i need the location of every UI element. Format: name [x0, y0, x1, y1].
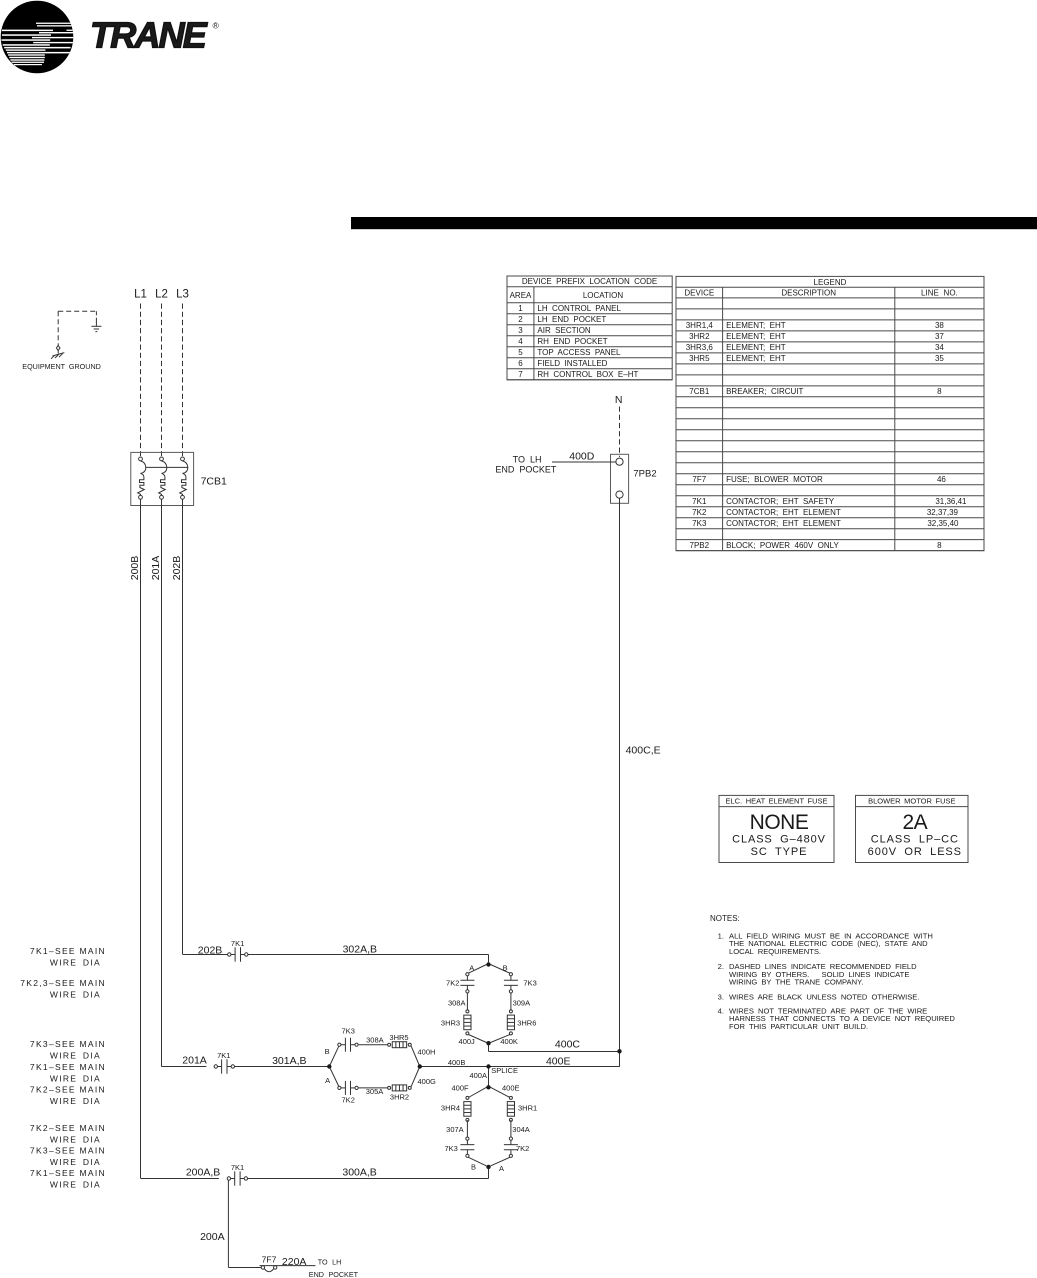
- svg-text:3.: 3.: [718, 992, 724, 1001]
- svg-text:END POCKET: END POCKET: [309, 1270, 359, 1278]
- svg-text:DESCRIPTION: DESCRIPTION: [781, 289, 836, 298]
- svg-text:4.: 4.: [718, 1006, 724, 1015]
- svg-text:2A: 2A: [902, 811, 927, 834]
- svg-text:3HR3: 3HR3: [441, 1018, 460, 1027]
- svg-text:TRANE: TRANE: [90, 15, 208, 56]
- svg-text:2.: 2.: [718, 962, 724, 971]
- svg-text:34: 34: [935, 343, 944, 352]
- svg-text:35: 35: [935, 354, 944, 363]
- svg-text:AIR SECTION: AIR SECTION: [537, 326, 591, 335]
- svg-text:LOCAL REQUIREMENTS.: LOCAL REQUIREMENTS.: [729, 947, 821, 956]
- svg-text:400C,E: 400C,E: [626, 745, 661, 757]
- svg-text:200B: 200B: [129, 556, 141, 581]
- svg-text:LOCATION: LOCATION: [583, 291, 624, 300]
- svg-text:400F: 400F: [451, 1083, 469, 1092]
- svg-text:LH CONTROL PANEL: LH CONTROL PANEL: [537, 304, 621, 313]
- svg-text:CONTACTOR; EHT ELEMENT: CONTACTOR; EHT ELEMENT: [726, 508, 841, 517]
- svg-text:304A: 304A: [512, 1125, 530, 1134]
- svg-text:LINE NO.: LINE NO.: [921, 289, 958, 298]
- svg-text:CONTACTOR; EHT SAFETY: CONTACTOR; EHT SAFETY: [726, 497, 835, 506]
- svg-text:200A,B: 200A,B: [186, 1166, 220, 1178]
- svg-text:7K2: 7K2: [446, 978, 459, 987]
- svg-text:400G: 400G: [418, 1077, 437, 1086]
- svg-text:302A,B: 302A,B: [343, 944, 377, 956]
- svg-text:EQUIPMENT GROUND: EQUIPMENT GROUND: [22, 362, 101, 371]
- svg-text:7CB1: 7CB1: [201, 476, 227, 488]
- svg-text:7F7: 7F7: [262, 1255, 277, 1265]
- svg-text:600V OR LESS: 600V OR LESS: [868, 846, 962, 858]
- svg-text:FOR THIS PARTICULAR UNIT BUILD: FOR THIS PARTICULAR UNIT BUILD.: [729, 1022, 868, 1031]
- svg-text:®: ®: [213, 21, 220, 31]
- svg-text:WIRE DIA: WIRE DIA: [50, 1134, 101, 1144]
- svg-text:CLASS G–480V: CLASS G–480V: [732, 833, 826, 845]
- svg-text:308A: 308A: [366, 1036, 384, 1045]
- svg-text:7K2: 7K2: [342, 1095, 355, 1104]
- svg-text:2: 2: [518, 315, 523, 324]
- svg-text:WIRING BY THE TRANE COMPANY.: WIRING BY THE TRANE COMPANY.: [729, 978, 863, 987]
- svg-text:308A: 308A: [448, 999, 466, 1008]
- svg-text:7K2–SEE MAIN: 7K2–SEE MAIN: [30, 1123, 106, 1133]
- svg-text:400E: 400E: [502, 1083, 520, 1092]
- svg-text:CONTACTOR; EHT ELEMENT: CONTACTOR; EHT ELEMENT: [726, 519, 841, 528]
- svg-text:400B: 400B: [448, 1058, 466, 1067]
- svg-text:6: 6: [518, 359, 523, 368]
- svg-text:32,37,39: 32,37,39: [927, 508, 959, 517]
- svg-text:NONE: NONE: [750, 811, 809, 834]
- svg-text:7K1: 7K1: [231, 1163, 244, 1172]
- svg-text:400H: 400H: [418, 1048, 436, 1057]
- svg-text:32,35,40: 32,35,40: [927, 519, 959, 528]
- svg-text:RH END POCKET: RH END POCKET: [537, 337, 607, 346]
- svg-text:ELC. HEAT ELEMENT FUSE: ELC. HEAT ELEMENT FUSE: [725, 797, 827, 806]
- svg-text:38: 38: [935, 321, 944, 330]
- svg-text:WIRE DIA: WIRE DIA: [50, 957, 101, 967]
- svg-text:400E: 400E: [546, 1055, 571, 1067]
- svg-text:7PB2: 7PB2: [633, 469, 656, 480]
- svg-text:7K3: 7K3: [444, 1144, 457, 1153]
- svg-text:400K: 400K: [500, 1037, 518, 1046]
- svg-text:TO LH: TO LH: [318, 1257, 342, 1266]
- svg-text:7K1: 7K1: [217, 1051, 230, 1060]
- svg-text:BLOWER MOTOR FUSE: BLOWER MOTOR FUSE: [868, 797, 955, 806]
- svg-text:L2: L2: [155, 288, 168, 300]
- svg-text:FUSE; BLOWER MOTOR: FUSE; BLOWER MOTOR: [726, 475, 823, 484]
- svg-text:3HR5: 3HR5: [689, 354, 710, 363]
- svg-text:3HR1: 3HR1: [518, 1104, 537, 1113]
- svg-text:7K3–SEE MAIN: 7K3–SEE MAIN: [30, 1145, 106, 1155]
- svg-text:400A: 400A: [469, 1071, 487, 1080]
- svg-text:7F7: 7F7: [692, 475, 706, 484]
- svg-text:L3: L3: [176, 288, 189, 300]
- svg-text:7K3: 7K3: [692, 519, 707, 528]
- svg-text:400D: 400D: [569, 450, 595, 462]
- svg-text:TOP ACCESS PANEL: TOP ACCESS PANEL: [537, 348, 621, 357]
- svg-text:7: 7: [518, 370, 523, 379]
- svg-text:7K1–SEE MAIN: 7K1–SEE MAIN: [30, 946, 106, 956]
- svg-text:201A: 201A: [182, 1054, 207, 1066]
- svg-text:300A,B: 300A,B: [342, 1166, 376, 1178]
- svg-text:202B: 202B: [171, 556, 183, 581]
- svg-text:7K1: 7K1: [231, 939, 244, 948]
- svg-text:3HR2: 3HR2: [390, 1092, 409, 1101]
- svg-text:B: B: [325, 1047, 330, 1056]
- svg-text:7K2–SEE MAIN: 7K2–SEE MAIN: [30, 1084, 106, 1094]
- svg-text:CLASS LP–CC: CLASS LP–CC: [871, 833, 959, 845]
- svg-text:3HR2: 3HR2: [689, 332, 710, 341]
- svg-text:WIRE DIA: WIRE DIA: [50, 1179, 101, 1189]
- svg-text:200A: 200A: [200, 1231, 225, 1243]
- svg-text:400J: 400J: [459, 1037, 476, 1046]
- svg-text:A: A: [469, 963, 474, 972]
- svg-text:ELEMENT; EHT: ELEMENT; EHT: [726, 343, 786, 352]
- svg-text:37: 37: [935, 332, 944, 341]
- svg-text:3HR3,6: 3HR3,6: [686, 343, 714, 352]
- svg-text:BLOCK; POWER 460V ONLY: BLOCK; POWER 460V ONLY: [726, 541, 839, 550]
- svg-text:END POCKET: END POCKET: [495, 465, 557, 475]
- svg-text:46: 46: [937, 475, 946, 484]
- svg-text:309A: 309A: [513, 999, 531, 1008]
- svg-text:220A: 220A: [282, 1256, 307, 1268]
- svg-text:ELEMENT; EHT: ELEMENT; EHT: [726, 321, 786, 330]
- svg-text:7K1: 7K1: [692, 497, 707, 506]
- svg-text:ELEMENT; EHT: ELEMENT; EHT: [726, 354, 786, 363]
- svg-text:TO LH: TO LH: [513, 454, 542, 464]
- svg-text:A: A: [325, 1076, 330, 1085]
- svg-text:B: B: [471, 1162, 476, 1171]
- svg-text:3HR1,4: 3HR1,4: [686, 321, 714, 330]
- svg-text:7CB1: 7CB1: [689, 387, 710, 396]
- svg-text:7K2,3–SEE MAIN: 7K2,3–SEE MAIN: [20, 978, 106, 988]
- svg-text:8: 8: [937, 387, 942, 396]
- svg-text:WIRES ARE BLACK UNLESS NOTED O: WIRES ARE BLACK UNLESS NOTED OTHERWISE.: [729, 992, 919, 1001]
- svg-text:A: A: [499, 1164, 504, 1173]
- svg-text:3: 3: [518, 326, 523, 335]
- svg-text:WIRE DIA: WIRE DIA: [50, 1073, 101, 1083]
- svg-text:201A: 201A: [150, 556, 162, 581]
- svg-text:1: 1: [518, 304, 523, 313]
- svg-text:LEGEND: LEGEND: [814, 278, 847, 287]
- svg-text:3HR6: 3HR6: [517, 1018, 536, 1027]
- svg-text:7K2: 7K2: [692, 508, 707, 517]
- svg-text:7K1–SEE MAIN: 7K1–SEE MAIN: [30, 1062, 106, 1072]
- svg-text:ELEMENT; EHT: ELEMENT; EHT: [726, 332, 786, 341]
- svg-text:WIRE DIA: WIRE DIA: [50, 1157, 101, 1167]
- svg-text:SC TYPE: SC TYPE: [751, 846, 808, 858]
- svg-text:7K2: 7K2: [516, 1144, 529, 1153]
- svg-text:5: 5: [518, 348, 523, 357]
- svg-text:WIRE DIA: WIRE DIA: [50, 1096, 101, 1106]
- svg-text:307A: 307A: [446, 1125, 464, 1134]
- svg-text:202B: 202B: [198, 944, 223, 956]
- svg-text:31,36,41: 31,36,41: [935, 497, 967, 506]
- svg-text:L1: L1: [134, 288, 147, 300]
- svg-text:400C: 400C: [555, 1039, 581, 1051]
- svg-text:305A: 305A: [366, 1087, 384, 1096]
- svg-text:DEVICE: DEVICE: [684, 289, 714, 298]
- svg-text:7K3: 7K3: [342, 1027, 355, 1036]
- svg-text:4: 4: [518, 337, 523, 346]
- svg-text:DEVICE PREFIX LOCATION CODE: DEVICE PREFIX LOCATION CODE: [522, 277, 657, 286]
- svg-text:7K3–SEE MAIN: 7K3–SEE MAIN: [30, 1039, 106, 1049]
- svg-text:1.: 1.: [718, 931, 724, 940]
- svg-text:NOTES:: NOTES:: [710, 914, 740, 923]
- svg-text:8: 8: [937, 541, 942, 550]
- svg-text:3HR4: 3HR4: [441, 1104, 460, 1113]
- svg-text:BREAKER; CIRCUIT: BREAKER; CIRCUIT: [726, 387, 803, 396]
- svg-text:301A,B: 301A,B: [272, 1055, 306, 1067]
- svg-text:FIELD INSTALLED: FIELD INSTALLED: [537, 359, 607, 368]
- svg-text:RH CONTROL BOX E–HT: RH CONTROL BOX E–HT: [537, 370, 638, 379]
- svg-text:7K1–SEE MAIN: 7K1–SEE MAIN: [30, 1168, 106, 1178]
- svg-text:3HR5: 3HR5: [389, 1033, 408, 1042]
- svg-text:SPLICE: SPLICE: [491, 1066, 518, 1075]
- svg-text:WIRE DIA: WIRE DIA: [50, 989, 101, 999]
- svg-text:7PB2: 7PB2: [690, 541, 710, 550]
- svg-text:N: N: [615, 394, 623, 406]
- svg-text:B: B: [503, 963, 508, 972]
- svg-text:7K3: 7K3: [523, 978, 536, 987]
- svg-text:WIRE DIA: WIRE DIA: [50, 1050, 101, 1060]
- svg-text:AREA: AREA: [510, 291, 532, 300]
- svg-text:LH END POCKET: LH END POCKET: [537, 315, 606, 324]
